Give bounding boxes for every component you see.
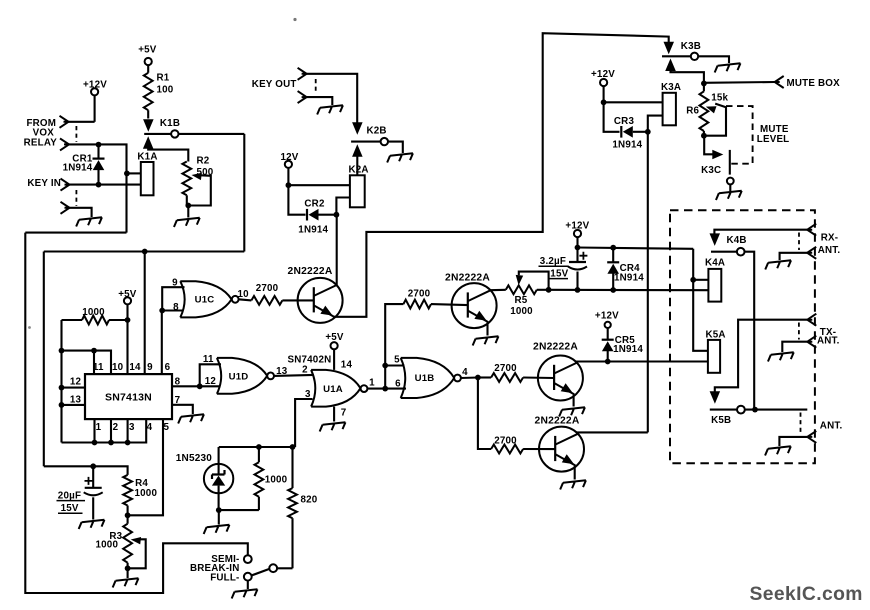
connector MUTE BOX	[704, 76, 840, 89]
svg-text:14: 14	[129, 362, 141, 373]
op-gate U1D	[217, 358, 267, 394]
wire K1B down	[243, 134, 245, 252]
relay coil K5A	[706, 330, 726, 373]
node U1C pin8 / 7413 pin6	[159, 308, 165, 314]
svg-text:2N2222A: 2N2222A	[533, 342, 578, 353]
node U1B pin5 junction	[382, 363, 388, 369]
contact arm K1A (arrow up)	[143, 136, 188, 161]
wire 7413 pin 5 to R4	[128, 419, 163, 515]
svg-text:10: 10	[112, 362, 124, 373]
svg-text:4: 4	[462, 367, 468, 378]
svg-text:U1B: U1B	[415, 373, 435, 384]
terminal +12V (cap node)	[565, 221, 589, 248]
label CR1	[63, 153, 93, 173]
pin label 12 U1D	[205, 376, 217, 387]
node K4A pin1	[690, 277, 696, 283]
svg-text:K3C: K3C	[701, 165, 721, 176]
wire zener top bus	[219, 446, 293, 448]
ground R2	[173, 218, 200, 227]
svg-text:RELAY: RELAY	[24, 138, 58, 149]
bubble U1A output	[361, 385, 368, 392]
wire 12V down to CR2	[288, 185, 305, 215]
pin label 14 U1A	[341, 360, 353, 371]
wiper R3	[128, 537, 146, 568]
svg-text:100: 100	[157, 85, 174, 96]
IC U1 SN7413N	[85, 374, 172, 419]
wire 7413 pin 6	[161, 311, 163, 375]
svg-text:R5: R5	[515, 295, 528, 306]
pin labels 7413 top	[93, 362, 171, 373]
transistor Q3 2N2222A	[533, 342, 583, 401]
wire left rail	[60, 320, 62, 443]
wire K4B top feed	[714, 230, 807, 237]
wire +12V feed to K4A	[578, 248, 694, 249]
resistor 1000 (zener)	[255, 447, 288, 510]
wire zener-1000 bottom link	[219, 509, 259, 511]
bubble U1B output	[454, 375, 461, 382]
contact K4B	[711, 235, 754, 410]
node +12V K3A	[601, 99, 607, 105]
svg-text:K1B: K1B	[160, 118, 180, 129]
connector KEY IN	[27, 178, 69, 191]
transistor Q1 2N2222A	[288, 266, 343, 323]
wire 7413 pin 12	[62, 387, 86, 389]
pin label 11 U1D	[203, 354, 214, 365]
svg-text:9: 9	[172, 278, 178, 289]
watermark SeekIC.com	[750, 584, 863, 605]
wire 820 to switch pole	[277, 567, 292, 569]
svg-text:K4B: K4B	[727, 235, 747, 246]
relay coil K2A	[349, 165, 369, 208]
svg-text:1000: 1000	[96, 540, 119, 551]
dashed link TX	[798, 323, 800, 340]
capacitor 20uF 15V	[84, 466, 103, 519]
relay coil K1A	[137, 152, 157, 196]
connector TX-ANT (top)	[807, 314, 836, 338]
contact K3B	[662, 41, 729, 63]
svg-text:MUTE BOX: MUTE BOX	[787, 78, 841, 89]
resistor 2700 (Q3 base)	[478, 363, 523, 382]
contact arm K3C	[701, 136, 723, 177]
terminal +12V K3	[591, 69, 615, 102]
contact K2B	[351, 125, 403, 153]
svg-text:1: 1	[96, 422, 102, 433]
node U1B pin6 junction	[382, 386, 388, 392]
svg-text:CR2: CR2	[304, 198, 325, 209]
wire U1A out	[368, 388, 386, 390]
wire Q2 emitter ground	[472, 322, 499, 345]
node 20uF top	[90, 463, 96, 469]
wire 7413 pins 11-10 link	[62, 351, 112, 375]
wire Q3 emitter ground	[558, 395, 585, 417]
connector RX-ANT (bottom)	[780, 245, 841, 260]
svg-text:SeekIC.com: SeekIC.com	[750, 584, 863, 605]
svg-text:R1: R1	[157, 73, 170, 84]
dashed link ANT	[800, 413, 802, 435]
wiper R5	[516, 272, 549, 290]
svg-text:1N914: 1N914	[63, 162, 93, 173]
diode CR5 1N914	[602, 335, 644, 361]
svg-text:SN7413N: SN7413N	[105, 392, 152, 404]
svg-text:U1D: U1D	[229, 372, 249, 383]
wire U1A pin7 ground	[319, 407, 346, 432]
svg-text:U1A: U1A	[323, 384, 343, 395]
svg-text:820: 820	[301, 494, 318, 505]
contact arm K3A (arrow up)	[665, 59, 704, 84]
arrow K5B (down)	[710, 320, 808, 404]
node pin11 link	[91, 348, 97, 354]
node R5 output	[546, 287, 552, 293]
svg-text:5: 5	[394, 355, 400, 366]
node 4 fanout	[475, 375, 481, 381]
pin labels 7413 bottom	[96, 422, 170, 433]
connector RX-ANT (top)	[807, 224, 838, 244]
pin label 4 U1B	[462, 367, 468, 378]
wire R to Q1 base	[282, 299, 313, 301]
wire Q3 collector line	[576, 362, 708, 363]
svg-text:K3A: K3A	[661, 82, 681, 93]
wire 7413 pin 3	[127, 419, 129, 442]
svg-text:1000: 1000	[135, 488, 158, 499]
node 7413 pin9 tap	[142, 249, 148, 255]
svg-text:1: 1	[369, 377, 375, 388]
pin label 7 U1A	[341, 408, 347, 419]
ground R3	[112, 578, 139, 587]
contact K3C pole	[727, 150, 734, 191]
ground ANT	[764, 446, 791, 455]
wire U1A pin3	[295, 399, 312, 447]
relay coil K3A	[661, 82, 681, 125]
contact arm K2A (arrow up)	[352, 144, 363, 175]
wire U1B pin6	[385, 388, 406, 390]
resistor R1 100	[144, 73, 174, 119]
node bus pin2	[108, 440, 114, 446]
wire CR2 to K2A pin2	[336, 198, 350, 215]
op-gate U1C	[180, 281, 231, 317]
wire node4 down	[478, 378, 491, 450]
wire K4A pin1 stub	[693, 279, 708, 281]
wire 7413 pin 8 to U1D	[172, 385, 200, 387]
node +5V/1000 junction	[125, 317, 131, 323]
node U1D input junction	[197, 383, 203, 389]
ground RX	[765, 260, 792, 269]
op-gate U1A	[311, 370, 360, 407]
svg-text:+12V: +12V	[595, 310, 619, 321]
wire KEY IN to K1A	[70, 184, 141, 186]
wire semi-break-in feed	[25, 233, 248, 593]
pin label 5 U1B	[394, 355, 400, 366]
node cap bottom	[575, 287, 581, 293]
dashed link key in	[75, 190, 77, 206]
wire Q1 collector to CR2 node	[336, 215, 338, 286]
svg-text:CR3: CR3	[614, 116, 635, 127]
wire 7413 pin 14	[126, 304, 128, 374]
switch SEMI/FULL	[244, 555, 277, 589]
arrow R1 to K1B line	[143, 119, 154, 132]
node bus pin1	[92, 440, 98, 446]
resistor 1000 (pullup)	[62, 307, 128, 325]
svg-text:1N914: 1N914	[614, 272, 644, 283]
diode CR2 1N914	[298, 198, 336, 235]
wire zener ground	[203, 510, 230, 534]
label SN7402N	[288, 354, 332, 365]
svg-text:LEVEL: LEVEL	[757, 134, 790, 145]
node 12V K2A junction	[286, 182, 292, 188]
connector TX-ANT (bottom)	[782, 336, 839, 352]
node 820 top	[290, 444, 296, 450]
svg-text:12: 12	[205, 376, 217, 387]
wire rail B to R4	[44, 466, 128, 475]
node CR1 anode junction	[96, 142, 102, 148]
node bus pin3	[125, 440, 131, 446]
node CR5 bottom	[605, 359, 611, 365]
svg-text:2: 2	[113, 422, 119, 433]
wire U1B out to node	[461, 376, 478, 379]
svg-text:K5B: K5B	[711, 415, 731, 426]
power +5V terminal U1A	[325, 332, 344, 370]
svg-text:11: 11	[93, 362, 104, 373]
connector KEY IN (ground side)	[61, 202, 92, 217]
node R6 bottom	[701, 133, 707, 139]
ground 7413 pin7	[177, 414, 204, 423]
svg-text:2700: 2700	[256, 283, 279, 294]
svg-text:12: 12	[70, 376, 82, 387]
svg-text:+12V: +12V	[83, 80, 107, 91]
pin labels 7413 right	[175, 376, 181, 406]
svg-text:+5V: +5V	[118, 289, 137, 300]
node K5B feed	[752, 407, 758, 413]
ground K2B	[386, 153, 413, 162]
potentiometer R3 1000	[96, 515, 133, 568]
potentiometer R2 500	[182, 156, 213, 196]
speck artifact	[293, 18, 296, 21]
node R2 bottom	[185, 195, 191, 217]
wire to Q4 base	[523, 448, 555, 450]
op-gate U1B	[401, 358, 455, 398]
node 1000 top	[256, 444, 262, 450]
node CR2 cathode junction	[334, 212, 340, 218]
wire KEY bus down-left	[25, 232, 126, 234]
node R4 bottom	[125, 512, 131, 518]
svg-text:ANT.: ANT.	[817, 336, 840, 347]
wire K3A pin2	[648, 116, 663, 132]
svg-text:U1C: U1C	[195, 295, 215, 306]
connector FROM VOX RELAY (bottom)	[60, 138, 69, 150]
pin label 1 U1A	[369, 377, 375, 388]
dashed antenna box	[670, 210, 815, 463]
ground TX	[767, 352, 794, 361]
resistor 2700 (Q2 base)	[403, 289, 431, 309]
wire 7413 pin 1	[93, 419, 95, 442]
node R3 bottom	[125, 565, 131, 578]
label 20uF	[57, 490, 86, 514]
svg-text:K1A: K1A	[137, 152, 157, 163]
diode CR4 1N914	[607, 248, 644, 290]
dashed MUTE LEVEL box	[726, 106, 789, 164]
svg-text:2700: 2700	[494, 363, 517, 374]
resistor 2700 (U1C-Q1)	[251, 283, 282, 305]
wire rail B down	[43, 252, 45, 467]
bubble U1D output	[267, 373, 274, 380]
label FROM VOX RELAY	[24, 118, 58, 149]
node CR4 bottom	[610, 287, 616, 293]
svg-text:5: 5	[163, 422, 169, 433]
connector FROM VOX RELAY (top)	[60, 116, 95, 128]
svg-text:2: 2	[302, 365, 308, 376]
ground K3C	[715, 191, 742, 200]
wire Q1 emitter route to K3B	[334, 33, 669, 317]
svg-text:K4A: K4A	[705, 258, 725, 269]
svg-text:14: 14	[341, 360, 353, 371]
svg-text:1N914: 1N914	[613, 344, 643, 355]
arrow K3B (down)	[664, 42, 675, 55]
svg-text:2N2222A: 2N2222A	[535, 416, 580, 427]
wire to K1A coil pin 1	[127, 172, 141, 174]
dashed link key out	[315, 79, 317, 92]
resistor R4 1000	[123, 475, 157, 515]
connector ANT (bottom)	[779, 421, 842, 447]
contact K1B	[144, 118, 244, 137]
svg-text:SN7402N: SN7402N	[288, 354, 332, 365]
wire R5 right	[537, 289, 549, 291]
wire U1C input pair	[162, 287, 184, 310]
relay coil K4A	[705, 258, 725, 302]
svg-text:7: 7	[341, 408, 347, 419]
wire +12V into box	[693, 249, 708, 351]
wire 7413 pin 4 and bus	[62, 419, 147, 442]
svg-text:+12V: +12V	[565, 221, 589, 232]
svg-text:20µF: 20µF	[58, 490, 81, 501]
svg-text:FULL-: FULL-	[210, 573, 239, 584]
wire to Q3 base	[523, 376, 554, 379]
node CR4 top	[610, 245, 616, 251]
resistor 2700 (Q4 base)	[491, 435, 523, 453]
arrow K4B (down)	[710, 233, 721, 246]
wire RELAY to K1A rail	[69, 144, 127, 232]
wire timing line	[44, 250, 245, 252]
connector KEY OUT (ground side)	[298, 91, 333, 105]
ground 20uF	[78, 520, 105, 529]
capacitor 3.2uF 15V	[568, 248, 587, 290]
transistor Q2 2N2222A	[445, 272, 497, 328]
svg-text:1000: 1000	[265, 475, 288, 486]
potentiometer R5 1000	[506, 285, 537, 316]
svg-text:2N2222A: 2N2222A	[288, 266, 333, 277]
diode CR1 1N914	[93, 145, 105, 185]
power +12V terminal	[83, 80, 107, 122]
node rail pin13	[59, 402, 65, 408]
wire U1C out to R	[239, 299, 252, 300]
potentiometer R6 15k	[686, 83, 728, 135]
svg-text:1N914: 1N914	[298, 224, 328, 235]
svg-text:KEY OUT: KEY OUT	[252, 79, 297, 90]
svg-text:8: 8	[173, 302, 179, 313]
wire +12V down to CR3	[604, 102, 620, 132]
node +12V cap top	[575, 245, 581, 251]
svg-text:9: 9	[147, 362, 153, 373]
svg-text:1N914: 1N914	[612, 140, 642, 151]
svg-text:2700: 2700	[494, 435, 517, 446]
diode CR3 1N914	[612, 116, 647, 151]
label SEMI-BREAK-IN FULL	[190, 554, 240, 584]
pin label 13 U1D	[276, 366, 288, 377]
node rail pin11	[59, 348, 65, 354]
wire 7413 pin 7 to ground	[172, 405, 193, 414]
node zener bottom	[216, 507, 222, 513]
wire mute supply line	[549, 289, 709, 292]
svg-text:K2B: K2B	[367, 125, 387, 136]
wire 7413 pin 11	[93, 351, 95, 375]
svg-text:2N2222A: 2N2222A	[445, 272, 490, 283]
ground key-out	[316, 105, 343, 114]
svg-text:+5V: +5V	[325, 332, 344, 343]
wiper R6	[704, 104, 726, 136]
power +5V terminal 7413	[118, 289, 137, 304]
wire +12V to K3A pin1	[604, 101, 663, 103]
svg-text:KEY IN: KEY IN	[27, 178, 61, 189]
svg-text:ANT.: ANT.	[818, 245, 841, 256]
wiper R2	[188, 173, 211, 206]
svg-text:RX-: RX-	[821, 232, 838, 243]
svg-text:ANT.: ANT.	[820, 421, 843, 432]
node KEY IN junction	[96, 182, 102, 188]
node mute box junction	[701, 81, 707, 87]
wire U1B tie to 2700	[385, 304, 403, 389]
bubble U1C output	[232, 296, 239, 303]
terminal +12V CR5	[595, 310, 619, 339]
wire Q2 collector to R5	[490, 289, 506, 292]
wire 7413 pin 13	[62, 404, 86, 406]
svg-text:3: 3	[129, 422, 135, 433]
wire to Q2 base	[431, 304, 468, 305]
pin label 10 U1C	[238, 289, 250, 300]
pin labels 7413 left	[70, 376, 82, 405]
svg-text:13: 13	[70, 394, 82, 405]
resistor 820	[288, 447, 318, 568]
svg-text:K2A: K2A	[349, 165, 369, 176]
node CR3 cathode	[645, 129, 651, 135]
transistor Q4 2N2222A	[535, 416, 584, 472]
dashed link vox	[75, 126, 77, 142]
svg-text:+12V: +12V	[591, 69, 615, 80]
svg-text:12V: 12V	[281, 152, 299, 163]
wire CR3 to Q4 collector	[647, 132, 649, 433]
node rail pin12	[59, 385, 65, 391]
wire KEY OUT to K2B	[307, 74, 358, 123]
svg-text:15k: 15k	[711, 92, 728, 103]
svg-text:6: 6	[395, 378, 401, 389]
svg-text:1N5230: 1N5230	[176, 453, 212, 464]
wire U1D out to U1A pin2	[274, 375, 314, 376]
zener 1N5230	[176, 447, 234, 510]
pin label 6 U1B	[395, 378, 401, 389]
pin label 3 U1A	[305, 389, 311, 400]
svg-text:+5V: +5V	[138, 44, 157, 55]
svg-text:1000: 1000	[82, 307, 105, 318]
svg-text:11: 11	[203, 354, 214, 365]
svg-text:2700: 2700	[408, 289, 431, 300]
label 3.2uF	[539, 256, 569, 279]
contact K5B	[710, 406, 808, 426]
ground K3B	[714, 63, 741, 72]
wire Q4 emitter ground	[559, 466, 586, 490]
wire 7413 pin 9	[144, 252, 146, 375]
wire U1B pin5	[385, 364, 404, 366]
wire Q4 collector line	[577, 432, 648, 434]
arrow KEY OUT to K2B line	[352, 122, 363, 135]
wire 12V to K2A pin1	[288, 184, 350, 186]
svg-text:R2: R2	[197, 156, 210, 167]
